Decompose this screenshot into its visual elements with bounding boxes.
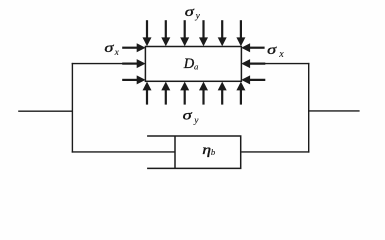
svg-text:D: D <box>183 56 195 72</box>
label sigma_x left <box>104 40 119 58</box>
stress arrow left 2 <box>122 59 145 68</box>
wire left top horizontal <box>72 63 124 65</box>
svg-text:x: x <box>114 48 120 58</box>
label sigma_y top <box>185 4 201 22</box>
stress arrow right 2 <box>241 59 265 68</box>
svg-text:σ: σ <box>183 108 194 123</box>
stress arrow top 4 <box>199 20 208 46</box>
stress arrow bottom 5 <box>218 82 227 105</box>
stress arrow bottom 3 <box>180 82 189 105</box>
stress arrow top 2 <box>161 20 170 46</box>
wire left bottom rod <box>72 151 175 153</box>
stress arrow left 3 <box>122 75 145 84</box>
svg-text:σ: σ <box>267 42 278 57</box>
stress arrow top 6 <box>236 20 245 46</box>
label sigma_y bottom <box>183 108 200 127</box>
stress arrow right 1 <box>241 43 264 52</box>
stress arrow bottom 6 <box>236 82 245 105</box>
wire right top horizontal <box>264 63 309 65</box>
wire right vertical <box>308 63 310 153</box>
stress arrow right 3 <box>241 75 265 84</box>
label sigma_x right <box>267 42 284 60</box>
stress arrow bottom 4 <box>199 82 208 105</box>
stress arrow bottom 1 <box>143 82 152 105</box>
svg-text:b: b <box>211 147 216 157</box>
label eta_b <box>202 142 216 157</box>
stress arrow top 3 <box>180 20 189 46</box>
label Da <box>183 56 199 72</box>
stress arrow top 5 <box>218 20 227 46</box>
stress arrow left 1 <box>122 43 145 52</box>
svg-text:y: y <box>193 116 199 126</box>
wire right terminal <box>309 110 360 112</box>
wire right rod <box>241 151 309 153</box>
wire left vertical <box>71 63 73 153</box>
svg-text:σ: σ <box>104 40 115 55</box>
svg-text:y: y <box>195 12 201 22</box>
plastic element box Da <box>145 47 241 82</box>
svg-text:x: x <box>278 49 284 60</box>
svg-text:σ: σ <box>185 4 196 19</box>
stress arrow bottom 2 <box>161 82 170 105</box>
svg-text:a: a <box>194 61 199 71</box>
wire left terminal <box>18 110 72 112</box>
dashpot piston plate <box>174 136 176 168</box>
dashpot cylinder <box>147 136 241 168</box>
stress arrow top 1 <box>143 20 152 46</box>
